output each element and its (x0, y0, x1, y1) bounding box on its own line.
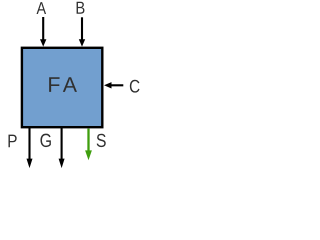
arrowhead input B (79, 39, 85, 46)
label FA (49, 77, 59, 92)
arrowhead input C (104, 82, 112, 88)
input C label (130, 80, 140, 93)
input A label (37, 2, 47, 14)
wire input B (81, 17, 83, 40)
arrowhead output S (green) (85, 150, 92, 160)
wire output G (61, 127, 63, 160)
arrowhead output G (59, 159, 65, 169)
output P label (8, 135, 16, 148)
wire output S (green) (87, 129, 89, 152)
wire output P (28, 127, 30, 160)
arrowhead output P (27, 159, 33, 169)
output G label (40, 134, 50, 147)
wire input A (42, 17, 44, 41)
wire input C (111, 84, 124, 86)
full adder block FA (22, 48, 102, 127)
input B label (77, 2, 85, 14)
arrowhead input A (40, 39, 46, 46)
output S label (97, 134, 106, 147)
